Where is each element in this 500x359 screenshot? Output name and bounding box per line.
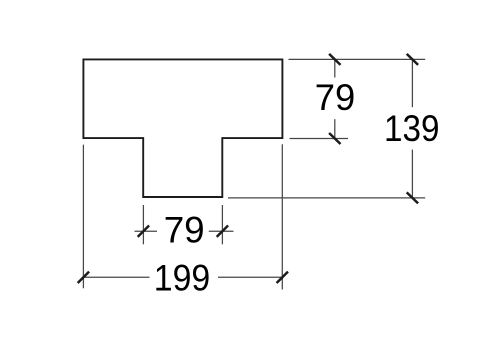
svg-text:79: 79	[164, 209, 205, 251]
extension line stem right (below stem bottom-right corner)	[221, 205, 223, 244]
dimension line 79 bottom (left segment)	[135, 230, 158, 232]
tick 199 left	[78, 272, 89, 283]
extension line 199 right (below bar bottom-right corner)	[281, 144, 283, 289]
T-shaped block outline	[83, 59, 282, 197]
dimension line 79 right (vertical, upper segment)	[334, 59, 336, 77]
tick 139 top	[407, 54, 418, 65]
extension line stem left (below stem bottom-left corner)	[142, 205, 144, 244]
dimension line 199 (right segment)	[218, 276, 282, 278]
extension line top (from top-right corner to 139 dim)	[289, 58, 426, 60]
svg-text:79: 79	[315, 76, 356, 118]
extension line mid (from bar bottom-right corner to 79 dim)	[290, 138, 349, 140]
dimension line 199 (left segment)	[83, 276, 149, 278]
svg-text:139: 139	[384, 107, 440, 149]
dimension line 79 right (vertical, lower segment)	[334, 119, 336, 138]
extension line 199 left (below bar bottom-left corner)	[82, 145, 84, 289]
dimension line 139 (vertical, upper segment)	[411, 59, 413, 107]
tick 79-bottom right	[217, 226, 228, 237]
extension line bottom (from stem bottom to 139 dim)	[228, 197, 425, 199]
tick 139 bottom	[407, 192, 418, 203]
tick 199 right	[277, 272, 288, 283]
tick 79-right bottom	[329, 133, 340, 144]
dimension line 79 bottom (right segment)	[209, 230, 234, 232]
tick 79-right top	[329, 54, 340, 65]
svg-text:199: 199	[154, 256, 211, 298]
tick 79-bottom left	[138, 226, 149, 237]
dimension line 139 (vertical, lower segment)	[411, 150, 413, 198]
